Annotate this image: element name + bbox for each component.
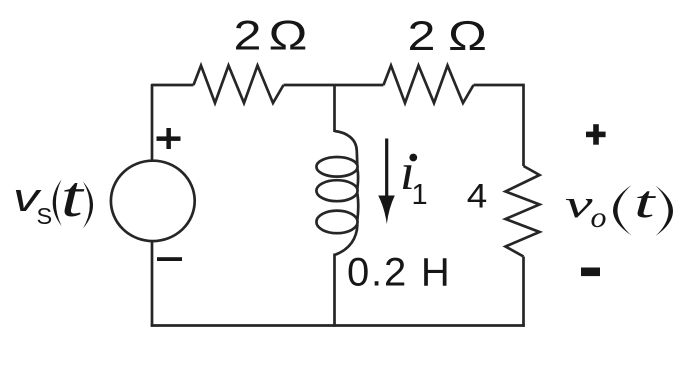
paren ) of vo(t) [656,186,674,237]
current arrow i1 head [378,196,395,225]
inductor L1 right strand connector 2 [356,194,360,220]
wire: top-right corner (R2 to R3 top) [474,85,524,166]
svg-text:1: 1 [412,179,428,211]
resistor R3 (4 ohm, vertical zigzag) [506,166,540,257]
svg-text:t: t [634,176,657,227]
svg-text:Ω: Ω [448,12,487,59]
wire: right vertical lower (R3 to bottom wire) [522,257,525,327]
svg-text:v: v [565,183,594,226]
resistor R2 (2 ohm, top-right zigzag) [384,66,474,104]
svg-text:4: 4 [467,178,488,216]
resistor R1 (2 ohm, top-left zigzag) [194,66,284,104]
svg-text:2: 2 [234,12,262,59]
paren ( of vS(t) [53,180,62,227]
svg-text:o: o [591,201,607,234]
svg-text:S: S [37,203,53,229]
wire: top middle segment (R1 to R2 through node B) [284,84,384,87]
svg-text:2: 2 [408,12,436,59]
inductor L1 right strand connector 1 [356,169,359,189]
wire: left vertical upper (top-left corner to source + terminal) [152,85,194,160]
inductor L1 loop 1 [316,157,357,177]
plus sign at vo top [586,124,606,145]
wire: middle vertical lower (L1 to bottom wire) [333,254,336,327]
minus sign at source bottom [157,257,182,261]
inductor L1 (0.2 H) coil entry curve [335,131,358,165]
voltage source VS circle [111,161,195,241]
inductor L1 coil exit curve [335,225,358,256]
source label vS(t) [13,164,93,229]
wire: bottom rail [151,324,525,327]
minus sign at vo bottom [581,268,600,277]
wire: left vertical lower (source - terminal to bottom wire) [151,242,154,327]
wire: middle vertical upper (node B to L1) [333,85,336,132]
output label vo(t) [565,176,673,236]
inductor L1 loop 3 [316,211,357,234]
svg-text:0.2 H: 0.2 H [347,251,452,295]
plus sign at source top [157,128,181,149]
svg-text:Ω: Ω [269,12,308,59]
inductor L1 loop 2 [316,180,357,201]
paren ) of vS(t) [83,182,93,229]
paren ( of vo(t) [613,185,632,236]
svg-text:t: t [61,164,86,229]
current arrow i1 shaft [385,139,388,200]
